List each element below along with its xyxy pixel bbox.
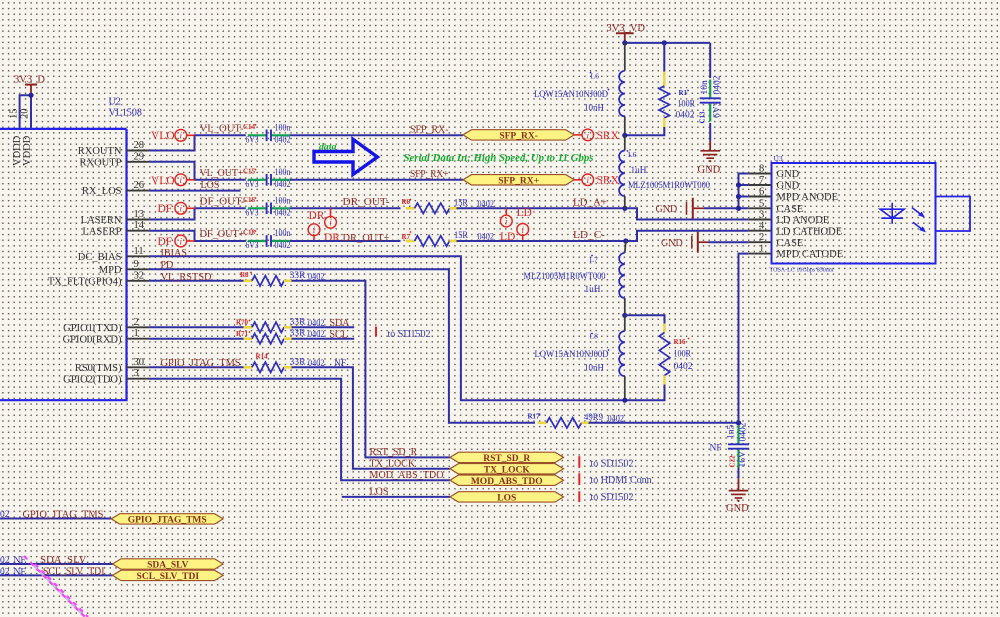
svg-text:R70: R70 [236, 319, 249, 327]
wire LD_C- to U3 pin4 [626, 231, 749, 241]
svg-text:U2: U2 [109, 97, 121, 108]
wire LD_A+ to U3 pin3 [625, 208, 749, 219]
svg-text:13: 13 [134, 209, 145, 220]
U3 pin 3 LD ANODE [749, 219, 772, 221]
svg-text:32: 32 [134, 270, 145, 281]
wire U3 pin1 MPD CATODE down [739, 254, 749, 423]
svg-text:6V3: 6V3 [246, 136, 259, 146]
svg-text:MLZ1005M1R0WT000: MLZ1005M1R0WT000 [524, 272, 606, 282]
svg-text:SRX: SRX [597, 130, 620, 142]
capacitor C18 [248, 240, 267, 242]
capacitor C15 [248, 179, 267, 181]
resistor R71 33R [244, 337, 253, 340]
U2 pin 32 TX_FLT(GPIO4) [127, 280, 150, 282]
wire R14 to TX_LOCK port [292, 367, 451, 469]
U3 pin 5 CASE [749, 207, 772, 209]
svg-text:LQW15AN10NJ00D: LQW15AN10NJ00D [534, 90, 608, 100]
svg-text:to SD1502: to SD1502 [591, 459, 634, 470]
svg-text:100R: 100R [678, 100, 696, 110]
U3 photodiode arrows [912, 208, 926, 233]
svg-text:33R: 33R [290, 271, 307, 281]
port GPIO_JTAG_TMS [111, 514, 223, 524]
svg-text:TX_LOCK: TX_LOCK [370, 458, 416, 469]
junction 3V3_VD stem [622, 40, 627, 45]
capacitor C14 [248, 134, 267, 136]
svg-text:DR: DR [324, 232, 340, 244]
svg-text:MLZ1005M1R0WT000: MLZ1005M1R0WT000 [628, 181, 710, 191]
svg-text:49R9: 49R9 [584, 413, 603, 423]
wire C16 to R6 [290, 207, 401, 209]
svg-text:29: 29 [134, 151, 145, 162]
sheet boundary guide line [33, 565, 85, 617]
svg-text:R8: R8 [240, 271, 249, 279]
resistor R16 100R branch [625, 315, 665, 323]
svg-text:RX_LOS: RX_LOS [82, 186, 122, 197]
resistor R6 15R [406, 207, 415, 210]
svg-text:0402: 0402 [275, 241, 291, 251]
U2 pin 3 GPIO2(TDO) [127, 378, 150, 380]
svg-text:0402: 0402 [275, 209, 291, 219]
svg-text:16V: 16V [738, 451, 748, 468]
port SCL_SLV_TDI [113, 570, 224, 580]
svg-text:MOD_ABS_TDO: MOD_ABS_TDO [370, 470, 444, 481]
wire pin32 to R8 [149, 280, 244, 282]
svg-text:to HDMI Conn: to HDMI Conn [591, 475, 652, 486]
svg-text:15: 15 [9, 109, 20, 120]
U2 pin 11 DC_BIAS [127, 255, 150, 257]
U2 pin 26 RX_LOS [127, 190, 150, 192]
svg-text:0402: 0402 [739, 422, 749, 441]
port SFP_RX+ [463, 175, 574, 185]
U3 laser diode symbol [880, 203, 904, 224]
U3 pin 4 LD CATHODE [749, 230, 772, 232]
svg-text:GND: GND [698, 165, 721, 176]
no-ERC marker SDA/SCL [375, 327, 377, 337]
U2 pin 1 GPIO0(RXD) [127, 338, 150, 340]
svg-text:DF: DF [158, 236, 173, 248]
svg-text:SRX: SRX [597, 175, 620, 187]
svg-text:9: 9 [134, 259, 139, 270]
U3 pin 2 CASE [749, 241, 772, 243]
wire R8 to RST_SD_R port [292, 281, 451, 458]
U3 ground bus wire [739, 174, 749, 209]
svg-text:SFP_RX-: SFP_RX- [499, 132, 538, 142]
probe LD (lower) [517, 224, 529, 236]
svg-text:C15: C15 [243, 168, 256, 176]
svg-text:02: 02 [0, 556, 10, 566]
svg-text:SFP_RX+: SFP_RX+ [410, 169, 449, 180]
svg-text:15R: 15R [454, 231, 469, 241]
svg-text:SCL_SLV_TDI: SCL_SLV_TDI [137, 572, 200, 582]
svg-text:0402: 0402 [275, 180, 291, 190]
svg-text:11: 11 [134, 246, 144, 257]
svg-text:RXOUTP: RXOUTP [79, 157, 121, 168]
svg-text:C22: C22 [729, 455, 737, 468]
resistor R14 33R [244, 366, 253, 369]
wire GND cap to pin2 [709, 241, 749, 243]
svg-text:LD CATHODE: LD CATHODE [777, 226, 843, 237]
svg-text:1uH: 1uH [631, 166, 647, 176]
svg-text:NF: NF [14, 556, 26, 566]
wire C14 to SFP_RX- port [290, 134, 463, 136]
svg-text:MPD: MPD [99, 265, 122, 276]
U2 pin 29 RXOUTP [127, 161, 150, 163]
svg-text:CASE: CASE [777, 238, 804, 249]
svg-text:GND: GND [656, 204, 678, 215]
svg-text:GND: GND [726, 503, 749, 514]
svg-text:GPIO_JTAG_TMS: GPIO_JTAG_TMS [23, 510, 104, 521]
svg-text:L6: L6 [628, 150, 637, 159]
inductor L8 10nH LQW15AN10NJ00D [624, 315, 626, 331]
svg-text:R17: R17 [528, 413, 541, 421]
svg-text:GPIO_JTAG_TMS: GPIO_JTAG_TMS [128, 516, 207, 526]
svg-text:R6: R6 [402, 198, 411, 206]
optical assembly U3 body [772, 163, 936, 264]
junction MPD node [736, 420, 741, 425]
svg-text:LASERP: LASERP [82, 226, 121, 237]
svg-text:7: 7 [759, 175, 764, 186]
port MOD_ABS_TDO [450, 475, 564, 485]
svg-text:TOSA-LC 10Gbps 850nm: TOSA-LC 10Gbps 850nm [770, 267, 834, 274]
wire GPIO_JTAG_TMS from sheet edge [0, 518, 111, 520]
svg-text:LD ANODE: LD ANODE [777, 215, 830, 226]
svg-text:GPIO1(TXD): GPIO1(TXD) [63, 323, 122, 334]
svg-text:6V3: 6V3 [713, 101, 723, 118]
svg-text:SFP_RX-: SFP_RX- [410, 125, 449, 136]
svg-text:C13: C13 [699, 111, 707, 124]
svg-text:6V3: 6V3 [246, 180, 259, 190]
designator parameter dots [249, 72, 690, 415]
port SDA_SLV [113, 559, 224, 569]
svg-text:LD_A+: LD_A+ [573, 198, 607, 209]
svg-text:VDDD: VDDD [22, 135, 33, 166]
probe SRX (lower) [574, 179, 582, 181]
svg-text:DR: DR [309, 210, 325, 222]
svg-text:100n: 100n [275, 124, 291, 134]
junction LD_A+ / bias tee [622, 206, 627, 211]
ground GND (C22) [738, 478, 740, 490]
junction L7 bottom [622, 313, 627, 318]
junction bus pin5 [736, 206, 741, 211]
svg-text:0402: 0402 [676, 111, 695, 121]
svg-text:02: 02 [0, 510, 10, 520]
wire pin9 PD route to R17 [149, 269, 535, 423]
svg-text:DR_OUT-: DR_OUT- [343, 197, 390, 208]
svg-text:U3: U3 [774, 154, 783, 163]
inductor L7 1uH MLZ1005M1R0WT000 [625, 241, 626, 253]
svg-text:GND: GND [777, 181, 800, 192]
IC U2 VL1508 body [0, 128, 127, 130]
probe DR (lower) [308, 224, 320, 236]
svg-text:Serial Data In; High Speed, Up: Serial Data In; High Speed, Up to 11 Gbp… [404, 152, 594, 164]
svg-text:GPIO2(TDO): GPIO2(TDO) [63, 374, 122, 385]
port LOS [450, 492, 564, 502]
probe SRX (upper) [574, 134, 582, 136]
wire R71 end [292, 338, 355, 340]
svg-text:R16: R16 [674, 338, 687, 346]
inductor L6b 1uH MLZ1005M1R0WT000 [624, 135, 626, 150]
svg-text:GND: GND [661, 238, 683, 249]
svg-text:100n: 100n [275, 229, 291, 239]
svg-text:RST_SD_R: RST_SD_R [483, 454, 530, 464]
svg-text:GND: GND [777, 169, 800, 180]
svg-text:1uH: 1uH [585, 285, 601, 295]
svg-text:NF: NF [710, 444, 722, 454]
svg-text:28: 28 [134, 140, 145, 151]
wire R6 to LD_A+ junction [457, 207, 625, 209]
no-ERC marker RST/TX [578, 456, 580, 468]
svg-text:VL_RSTSD: VL_RSTSD [161, 272, 212, 283]
svg-text:CASE: CASE [777, 204, 804, 215]
svg-text:LD_C-: LD_C- [573, 230, 605, 241]
svg-text:DF_OUT+: DF_OUT+ [200, 229, 245, 240]
U3 pin 8 GND [749, 173, 772, 175]
svg-text:L8: L8 [590, 332, 599, 341]
wire pin30 to R14 [149, 366, 244, 368]
svg-text:LOS: LOS [201, 180, 220, 191]
wire 3V3_VD rail [625, 42, 710, 44]
svg-text:LD: LD [517, 207, 532, 219]
svg-text:0402: 0402 [275, 136, 291, 146]
port TX_LOCK [450, 464, 564, 474]
wire LOS port stub [342, 496, 450, 498]
svg-text:33R: 33R [290, 357, 307, 367]
probe LD (upper) [500, 215, 512, 227]
U2 pin 30 RS0(TMS) [127, 366, 150, 368]
U2 pin 9 MPD [127, 268, 150, 270]
wire R7 to LD_C- junction [457, 240, 626, 242]
svg-text:VL_OUT-: VL_OUT- [200, 124, 244, 135]
svg-text:L6: L6 [591, 72, 600, 81]
svg-text:C14: C14 [243, 123, 256, 131]
wire R70 end [292, 326, 355, 328]
svg-text:1n5: 1n5 [727, 425, 737, 440]
wire pin2 to R70 [149, 326, 244, 328]
svg-text:1: 1 [759, 244, 764, 255]
svg-text:26: 26 [134, 180, 145, 191]
svg-text:L7: L7 [590, 255, 599, 264]
wire pin28 to VL_OUT- corner [149, 135, 246, 150]
svg-text:6: 6 [759, 187, 764, 198]
capacitor C22 1n5 NF [737, 426, 739, 445]
junction bus pin7 [736, 182, 741, 187]
svg-text:GPIO0(RXD): GPIO0(RXD) [63, 334, 122, 345]
svg-text:100R: 100R [674, 350, 692, 360]
ground GND (C13) [709, 141, 711, 151]
svg-text:VLO: VLO [151, 175, 175, 187]
no-ERC marker LOS [578, 491, 580, 502]
wire C15 to SFP_RX+ port [290, 179, 463, 181]
svg-text:33R: 33R [290, 317, 307, 327]
svg-text:SDA_SLV: SDA_SLV [40, 555, 87, 566]
svg-text:6V3: 6V3 [246, 209, 259, 219]
junction at 3V3_D stem [28, 93, 33, 98]
svg-text:0402: 0402 [674, 362, 693, 372]
wire pin26 RX_LOS stub [149, 190, 240, 192]
svg-text:100n: 100n [275, 168, 291, 178]
wire pin29 to VL_OUT- lower corner [149, 162, 246, 180]
svg-text:02: 02 [0, 567, 10, 577]
svg-text:SFP_RX+: SFP_RX+ [498, 176, 539, 186]
svg-text:LASERN: LASERN [81, 215, 122, 226]
junction SFP_RX- bias node [622, 133, 627, 138]
U3 pin 1 MPD CATODE [749, 253, 772, 255]
svg-text:C18: C18 [243, 229, 256, 237]
svg-text:14: 14 [134, 220, 145, 231]
svg-text:6V3: 6V3 [246, 241, 259, 251]
svg-text:0402: 0402 [713, 75, 723, 94]
svg-text:PD: PD [161, 260, 174, 271]
svg-text:NF: NF [14, 567, 26, 577]
wire SDA_SLV from sheet edge [0, 563, 113, 565]
port RST_SD_R [450, 452, 564, 462]
svg-text:33R: 33R [290, 329, 307, 339]
resistor R8 33R [244, 279, 253, 282]
wire pin3 TDO to MOD_ABS_TDO port [149, 379, 450, 481]
svg-text:VL1508: VL1508 [109, 108, 142, 119]
port SFP_RX- [463, 130, 574, 140]
svg-text:4: 4 [759, 221, 765, 232]
junction bias network bottom [622, 398, 627, 403]
U2 pin 13 LASERN [127, 219, 150, 221]
svg-text:R7: R7 [402, 233, 411, 241]
svg-text:8: 8 [759, 164, 764, 175]
junction R1 top [662, 40, 667, 45]
svg-text:TX_LOCK: TX_LOCK [484, 465, 531, 475]
resistor R7 15R [406, 240, 415, 243]
svg-text:30: 30 [134, 357, 145, 368]
svg-text:DR_OUT+: DR_OUT+ [343, 233, 390, 244]
svg-text:DF: DF [158, 203, 173, 215]
U2 pin 2 GPIO1(TXD) [127, 326, 150, 328]
sheet boundary dashed line A [24, 556, 85, 617]
U2 pin 14 LASERP [127, 230, 150, 232]
svg-text:15R: 15R [454, 199, 469, 209]
svg-text:10nH: 10nH [584, 364, 604, 374]
svg-text:LOS: LOS [497, 494, 516, 504]
svg-text:RXOUTN: RXOUTN [78, 146, 122, 157]
svg-text:2: 2 [134, 317, 139, 328]
svg-text:3: 3 [134, 368, 139, 379]
sheet boundary dashed line B [35, 564, 88, 617]
svg-text:1: 1 [134, 328, 139, 339]
U3 pin 7 GND [749, 184, 772, 186]
svg-text:data: data [319, 143, 337, 153]
wire SCL_SLV_TDI from sheet edge [0, 574, 113, 576]
svg-text:10nH: 10nH [584, 104, 604, 114]
resistor R17 49R9 [538, 421, 547, 424]
svg-text:TX_FLT(GPIO4): TX_FLT(GPIO4) [48, 276, 122, 287]
svg-text:MOD_ABS_TDO: MOD_ABS_TDO [471, 477, 543, 487]
svg-text:VL_OUT+: VL_OUT+ [200, 168, 244, 179]
svg-text:10n: 10n [700, 80, 710, 95]
svg-text:RS0(TMS): RS0(TMS) [75, 363, 122, 374]
svg-text:2: 2 [759, 232, 764, 243]
svg-text:100n: 100n [275, 197, 291, 207]
U2 pin 28 RXOUTN [127, 150, 150, 152]
junction LD_C- / bias tee [623, 238, 628, 243]
svg-text:MPD CATODE: MPD CATODE [777, 249, 844, 260]
junction bus pin6 [736, 194, 741, 199]
U3 pin 6 MPD ANODE [749, 196, 772, 198]
svg-text:20: 20 [20, 109, 31, 120]
resistor R1 100R [663, 43, 665, 72]
svg-text:to SD1502: to SD1502 [591, 492, 634, 503]
svg-text:IBIAS: IBIAS [161, 248, 188, 259]
svg-text:LQW15AN10NJ00D: LQW15AN10NJ00D [535, 350, 609, 360]
capacitor C16 [248, 207, 267, 209]
wire pin14 to DF_OUT+ corner [149, 231, 246, 241]
svg-text:VLO: VLO [151, 130, 175, 142]
data flow arrow [314, 139, 377, 174]
no-ERC marker MOD_ABS [578, 473, 580, 485]
svg-text:SDA_SLV: SDA_SLV [147, 561, 189, 571]
svg-text:C16: C16 [243, 196, 256, 204]
svg-text:3: 3 [759, 210, 764, 221]
svg-text:MPD ANODE: MPD ANODE [777, 192, 839, 203]
svg-text:LOS: LOS [370, 486, 389, 497]
wire pin1 to R71 [149, 338, 244, 340]
wire R17 to MPD node [589, 422, 739, 424]
svg-text:SCL_SLV_TDI: SCL_SLV_TDI [43, 566, 105, 577]
wire pin13 to DF_OUT- corner [149, 208, 246, 219]
capacitor C13 10n [709, 43, 711, 78]
wire 3V3_D to VDDD pins [20, 95, 31, 129]
svg-text:5: 5 [759, 198, 764, 209]
wire C18 to R7 [290, 240, 401, 242]
svg-text:GPIO_JTAG_TMS: GPIO_JTAG_TMS [161, 358, 241, 369]
svg-text:R71: R71 [236, 330, 249, 338]
resistor R70 33R [244, 326, 253, 329]
wire pin11 IBIAS route to bias network [149, 256, 625, 400]
svg-text:DF_OUT-: DF_OUT- [200, 197, 245, 208]
svg-text:R1: R1 [679, 89, 688, 97]
inductor L6 10nH [624, 43, 626, 71]
U3 fiber tab [936, 197, 971, 232]
svg-text:RST_SD_R: RST_SD_R [370, 447, 418, 458]
svg-text:DC_BIAS: DC_BIAS [78, 252, 122, 263]
svg-text:to SD1502: to SD1502 [388, 329, 431, 340]
